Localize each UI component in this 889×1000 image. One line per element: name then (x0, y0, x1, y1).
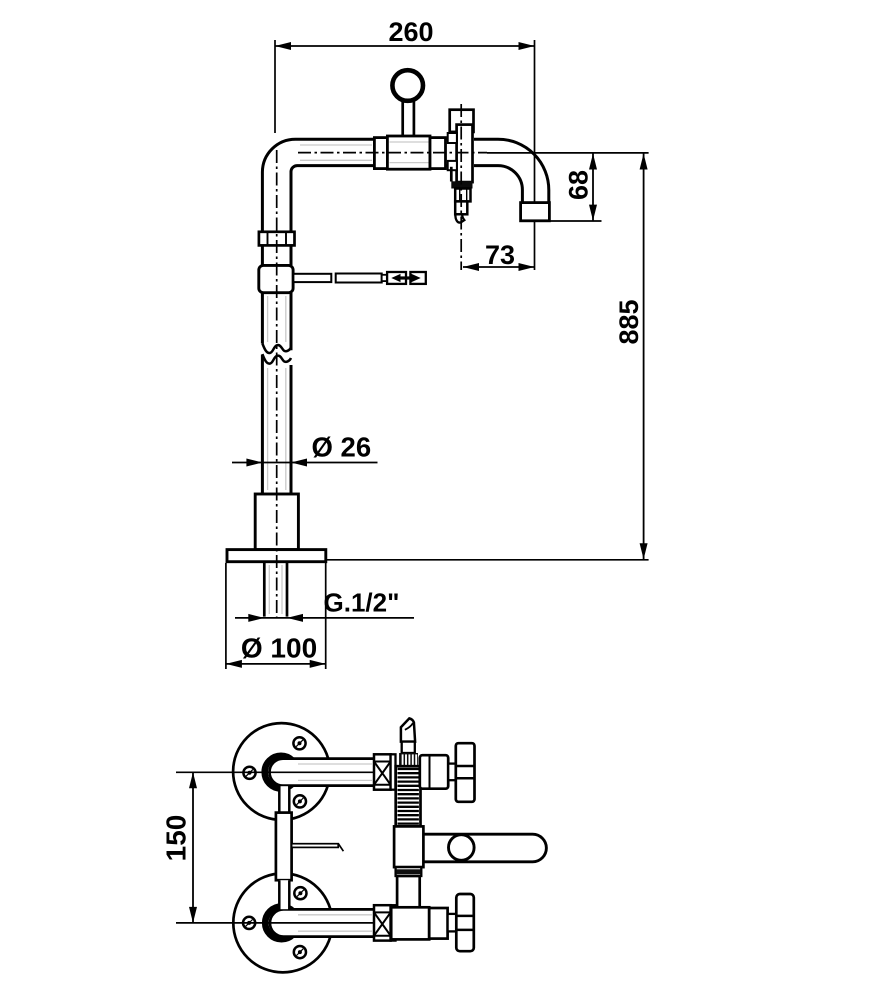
knurled block (396, 766, 421, 826)
dimension 68 arrow down (589, 205, 597, 221)
dimension 73 line (463, 266, 535, 268)
diverter tailpiece inner lines (460, 190, 467, 201)
hex nut (259, 232, 295, 246)
bottom cartridge (429, 908, 447, 939)
valve body right flange (430, 138, 446, 169)
svg-text:150: 150 (161, 815, 192, 862)
dimension 73 arrow left (463, 263, 479, 271)
diverter left notch upper (448, 133, 457, 143)
bottom cross handle (456, 894, 474, 951)
dimension d100 arrow left (226, 660, 242, 668)
ribbed cap (399, 753, 418, 766)
top cross handle (456, 743, 475, 802)
dimension 150 arrow up (189, 772, 197, 788)
mixer body (394, 826, 423, 867)
socket ring bottom (265, 907, 298, 940)
diverter inner block (457, 125, 473, 183)
dimension 73 arrow right (519, 263, 535, 271)
valve body left flange (374, 138, 387, 169)
dimension 260 arrow right (519, 42, 535, 50)
svg-text:68: 68 (564, 170, 594, 200)
check valve top collar (391, 754, 396, 789)
dimension d100 line (226, 663, 326, 665)
svg-text:260: 260 (388, 17, 433, 47)
check valve bottom collar (391, 905, 396, 940)
diverter dark band (451, 181, 472, 188)
dimension G12 arrow right (287, 614, 303, 622)
svg-text:Ø 100: Ø 100 (241, 633, 317, 664)
diverter knob base (402, 742, 415, 753)
diverter top block (450, 110, 474, 132)
valve body reflection lines (390, 142, 429, 163)
tailpiece reflection lines (269, 565, 282, 614)
connector rod lower (279, 880, 289, 909)
dimension 68 arrow up (589, 154, 597, 170)
break symbol lower squiggle (262, 354, 291, 364)
holder end box 1 (387, 272, 406, 284)
dimension 885 arrow down (640, 543, 648, 559)
svg-text:Ø 26: Ø 26 (312, 432, 372, 463)
dimension d26 arrow left (246, 459, 262, 467)
mounting sleeve (255, 494, 298, 550)
tub spout (423, 834, 546, 862)
diverter tailpiece (455, 189, 470, 202)
dimension 260 extension line left (274, 40, 276, 133)
supply pipe elbow inner edge (291, 166, 374, 232)
extension line to 68/885 dims (487, 152, 649, 154)
pipe stub between valve and diverter (446, 139, 450, 165)
riser pipe mid segment (262, 293, 291, 351)
diverter outlet tip (455, 214, 464, 222)
slide arrow left head (391, 274, 400, 282)
wall flange top (233, 723, 330, 820)
flange screw top 1 (293, 737, 305, 749)
pipe reflection lines (300, 145, 372, 160)
top supply pipe (270, 759, 375, 786)
wall flange bottom (233, 873, 332, 972)
holder end box 2 (410, 272, 425, 284)
dimension G12 line (235, 617, 414, 619)
base flange (227, 550, 326, 562)
riser pipe lower segment (262, 355, 291, 495)
holder collar (259, 265, 293, 292)
dimension G12 arrow left (248, 614, 264, 622)
dimension d100 arrow right (310, 660, 326, 668)
spout outer edge (474, 139, 549, 203)
dimension 150 extension bottom (176, 922, 374, 924)
hex nut facets (268, 233, 287, 245)
svg-text:G.1/2": G.1/2" (324, 588, 400, 618)
lower column (397, 876, 420, 908)
dimension 150 extension top (176, 771, 374, 773)
pipe centerline dash-dot (298, 152, 487, 154)
dimension 885 extension bottom (327, 559, 649, 561)
lever rod (292, 844, 339, 848)
dimension 885 arrow up (640, 154, 648, 170)
check valve bottom (374, 905, 391, 940)
slide arrow right head (412, 274, 421, 282)
dimension d26 arrow right (291, 459, 307, 467)
slide arrow bar (400, 276, 413, 279)
flange screw bottom 1 (294, 887, 306, 899)
holder arm rod segment 1 (293, 274, 331, 282)
riser centerline (276, 150, 278, 617)
diverter knob tip cut line (405, 723, 413, 730)
holder arm connector (382, 275, 387, 281)
socket ring top (265, 756, 298, 789)
connector rod upper (279, 786, 289, 813)
dimension 260/73 extension line right through spout (534, 40, 536, 270)
dimension 260 arrow left (275, 42, 291, 50)
check valve top (374, 754, 391, 789)
holder arm rod segment 2 (336, 274, 382, 283)
bottom valve body (391, 907, 429, 939)
handle stem (403, 101, 414, 137)
valve body (387, 136, 430, 169)
dimension 150 arrow down (189, 907, 197, 923)
spout ball joint (449, 835, 475, 861)
flange screw bottom 2 (243, 917, 255, 929)
riser pipe upper segment (262, 245, 291, 265)
flange screw top 3 (294, 795, 306, 807)
diverter lower left edge (450, 167, 453, 182)
dimension d26 line (232, 462, 378, 464)
flange screw top 2 (243, 767, 255, 779)
top cartridge (420, 755, 448, 789)
threaded tailpiece (264, 562, 287, 617)
dimension 68 line (592, 154, 594, 221)
break symbol upper squiggle (262, 344, 291, 354)
svg-text:885: 885 (614, 299, 644, 344)
flange screw bottom 3 (294, 946, 306, 958)
dimension 68 extension bottom (550, 220, 602, 222)
diverter left notch lower (448, 161, 457, 170)
riser reflection lines (268, 296, 286, 490)
supply pipe elbow outer edge (262, 139, 374, 232)
dimension 885 line (643, 154, 645, 560)
diverter centerline (460, 104, 462, 270)
dimension 150 line (192, 772, 194, 923)
bottom neck (448, 914, 457, 932)
bottom supply pipe (270, 909, 374, 936)
dimension 260 line (275, 45, 535, 47)
svg-text:73: 73 (485, 240, 515, 270)
spout end cap (521, 203, 550, 221)
lower ribbed ring (396, 867, 422, 876)
dimension d100 extension lines (226, 563, 326, 669)
connector body (276, 813, 292, 881)
top neck (448, 764, 456, 781)
diverter knob tip (401, 718, 415, 741)
spout inner edge (474, 166, 522, 203)
diverter lower tailpiece (455, 201, 467, 214)
lever rod tip (338, 844, 343, 852)
handle ring (392, 70, 423, 101)
